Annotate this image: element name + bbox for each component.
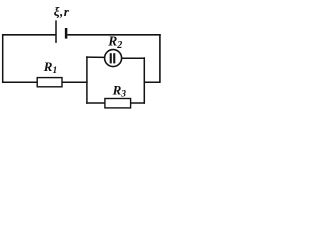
label R3 <box>112 82 127 99</box>
svg-text:R1: R1 <box>43 59 57 76</box>
label R2 <box>107 34 122 51</box>
resistor R3 box <box>105 99 131 108</box>
resistor R1 box <box>37 78 62 87</box>
wire R3 branch left segment <box>86 102 105 104</box>
svg-text:R2: R2 <box>107 34 122 51</box>
battery cell E,r long plate <box>55 20 57 43</box>
wire R2 branch left segment <box>86 56 105 58</box>
svg-text:ξ,r: ξ,r <box>54 4 70 19</box>
wire top-left from left vertical to battery <box>2 34 56 36</box>
battery cell E,r short plate <box>65 28 68 39</box>
wire top-right from battery to right vertical <box>67 34 160 36</box>
svg-text:R3: R3 <box>112 82 127 99</box>
wire R1 left segment <box>2 81 38 83</box>
wire R3 branch right segment <box>130 102 145 104</box>
wire R2 branch right segment <box>121 57 145 59</box>
lamp R2 circle <box>105 50 122 67</box>
label ξ,r <box>54 4 70 19</box>
wire mid-right horizontal <box>144 81 160 83</box>
wire left vertical <box>2 34 4 83</box>
wire outer right vertical <box>159 34 161 83</box>
label R1 <box>43 59 57 76</box>
wire parallel-combo left vertical <box>86 56 88 104</box>
wire R1 right segment to parallel-left node <box>62 81 88 83</box>
wire parallel-combo right vertical <box>143 57 145 104</box>
